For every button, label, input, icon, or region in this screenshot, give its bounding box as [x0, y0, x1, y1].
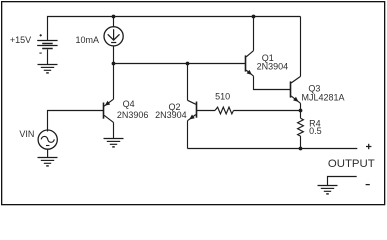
svg-text:10mA: 10mA — [76, 35, 100, 45]
svg-text:VIN: VIN — [19, 129, 34, 139]
svg-text:0.5: 0.5 — [309, 126, 322, 136]
svg-text:Q4: Q4 — [123, 99, 135, 109]
svg-text:+15V: +15V — [10, 35, 31, 45]
svg-text:OUTPUT: OUTPUT — [328, 158, 375, 170]
svg-text:2N3906: 2N3906 — [117, 110, 149, 120]
svg-text:2N3904: 2N3904 — [155, 110, 187, 120]
svg-text:510: 510 — [215, 91, 230, 101]
svg-text:2N3904: 2N3904 — [257, 62, 289, 72]
svg-text:MJL4281A: MJL4281A — [302, 93, 345, 103]
